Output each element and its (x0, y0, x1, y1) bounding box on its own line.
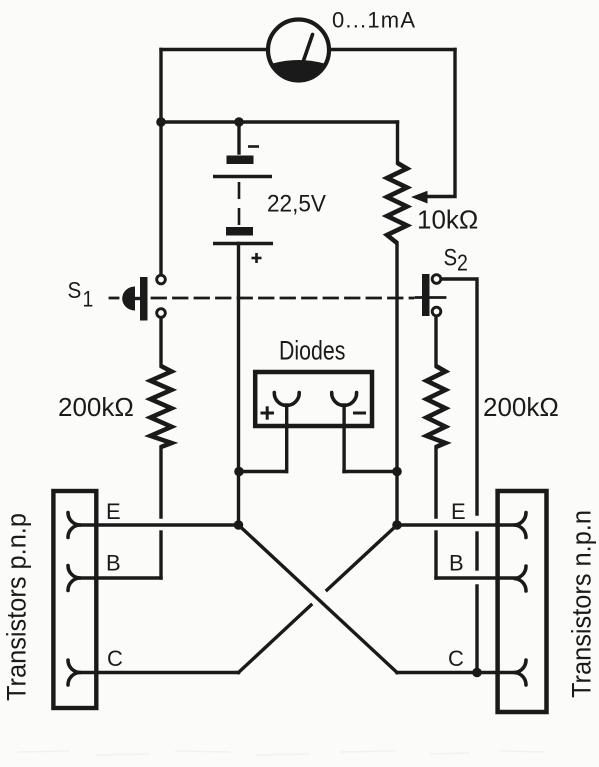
switch S1 (122, 275, 165, 320)
wire diode right horizontal (344, 470, 397, 473)
diode socket left (274, 393, 299, 406)
svg-text:2: 2 (457, 250, 468, 276)
junction node E right (392, 520, 402, 530)
wire E left (80, 523, 239, 526)
switch S2 (422, 274, 441, 316)
wire B left (80, 576, 161, 579)
wire left resistor to B upper segment (159, 447, 162, 517)
svg-text:0...1mA: 0...1mA (332, 8, 416, 33)
wire right resistor to E gap (434, 447, 437, 517)
wire battery bottom run (237, 244, 240, 526)
pnp socket C (68, 660, 81, 685)
pnp socket B (68, 566, 81, 591)
wire pot top stub (396, 122, 399, 163)
svg-text:C: C (107, 646, 123, 671)
transistor socket box npn (498, 491, 547, 712)
svg-text:10kΩ: 10kΩ (417, 205, 478, 235)
svg-text:S: S (68, 277, 82, 304)
svg-text:200kΩ: 200kΩ (483, 392, 559, 422)
npn socket B (514, 566, 526, 591)
diode minus mark (353, 412, 366, 415)
battery 22,5V (213, 156, 273, 244)
mechanical dashed link S1-S2 (152, 297, 413, 300)
wire diode right stem (342, 405, 345, 472)
junction node battery tap (234, 117, 244, 127)
junction node diode right (392, 467, 402, 477)
wire diagonal right-E to left-C upper segment (327, 525, 397, 590)
wire C right (397, 671, 515, 674)
battery plus mark (252, 253, 262, 263)
wire left resistor to B lower segment (159, 532, 162, 578)
svg-text:Transistors n.p.n: Transistors n.p.n (566, 510, 597, 698)
wire top bus (161, 120, 398, 123)
svg-text:200kΩ: 200kΩ (58, 392, 134, 422)
wire S1 to resistor (159, 319, 162, 366)
wire pot bottom run (395, 243, 398, 525)
svg-text:1: 1 (83, 287, 94, 311)
wire S2 net segment B to C (475, 586, 478, 673)
wire meter right vertical to pot arm (424, 50, 455, 197)
wire B right (436, 576, 515, 579)
wire left vertical upper (159, 50, 162, 275)
wire diode left stem (285, 405, 288, 472)
meter M 0...1mA (268, 20, 329, 81)
wire C left (80, 671, 239, 674)
battery minus mark (248, 145, 259, 148)
diode plus mark (261, 406, 275, 419)
wire diode left horizontal (239, 470, 286, 473)
wire meter right horizontal (328, 48, 455, 51)
wire E right (397, 523, 515, 526)
svg-text:B: B (449, 551, 464, 576)
mechanical link final segment through S2 bar (416, 296, 445, 299)
npn socket E (514, 513, 526, 538)
junction node E left (234, 520, 244, 530)
wire diagonal right-E to left-C lower segment (239, 605, 312, 673)
diode socket right (332, 393, 357, 406)
svg-text:S: S (444, 244, 458, 271)
wire S2 top contact right (442, 279, 477, 514)
svg-text:E: E (451, 499, 466, 524)
svg-text:Diodes: Diodes (279, 336, 345, 366)
wire right resistor to B (434, 532, 437, 578)
mechanical link stub left of S1 button (110, 297, 118, 300)
svg-text:Transistors p.n.p: Transistors p.n.p (1, 513, 32, 701)
svg-text:C: C (448, 646, 464, 671)
wire diagonal left-E to right-C (239, 525, 398, 673)
transistor socket box pnp (53, 491, 96, 708)
pnp socket E (68, 513, 81, 538)
svg-text:B: B (106, 551, 121, 576)
diode socket box (255, 372, 372, 426)
wire meter left horizontal (161, 48, 270, 51)
wire S2 bottom contact down (434, 317, 437, 366)
resistor 200k left (151, 366, 172, 447)
npn socket C (514, 660, 526, 685)
svg-text:22,5V: 22,5V (267, 190, 326, 217)
potentiometer 10k (387, 163, 428, 243)
svg-text:E: E (106, 499, 121, 524)
resistor 200k right (427, 366, 446, 447)
junction node C right (472, 668, 482, 678)
junction node bus left (156, 117, 166, 127)
junction node diode left (234, 467, 244, 477)
wire S2 net segment between E and B (475, 533, 478, 569)
wire battery top stub (237, 122, 240, 153)
